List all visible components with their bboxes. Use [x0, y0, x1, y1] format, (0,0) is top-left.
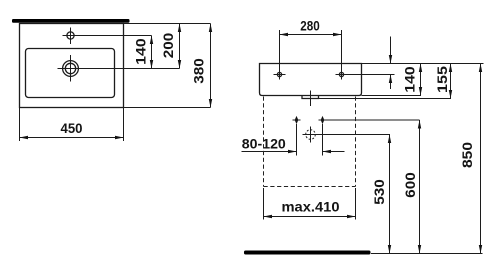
svg-text:200: 200: [160, 33, 176, 59]
svg-text:450: 450: [61, 120, 83, 136]
svg-text:155: 155: [434, 66, 450, 93]
svg-text:140: 140: [132, 38, 148, 65]
svg-text:850: 850: [459, 142, 475, 168]
svg-text:380: 380: [191, 58, 207, 84]
svg-text:140: 140: [401, 66, 417, 93]
svg-text:max.410: max.410: [282, 199, 340, 215]
svg-text:280: 280: [300, 18, 320, 34]
svg-text:600: 600: [402, 172, 418, 198]
svg-text:530: 530: [371, 179, 387, 205]
